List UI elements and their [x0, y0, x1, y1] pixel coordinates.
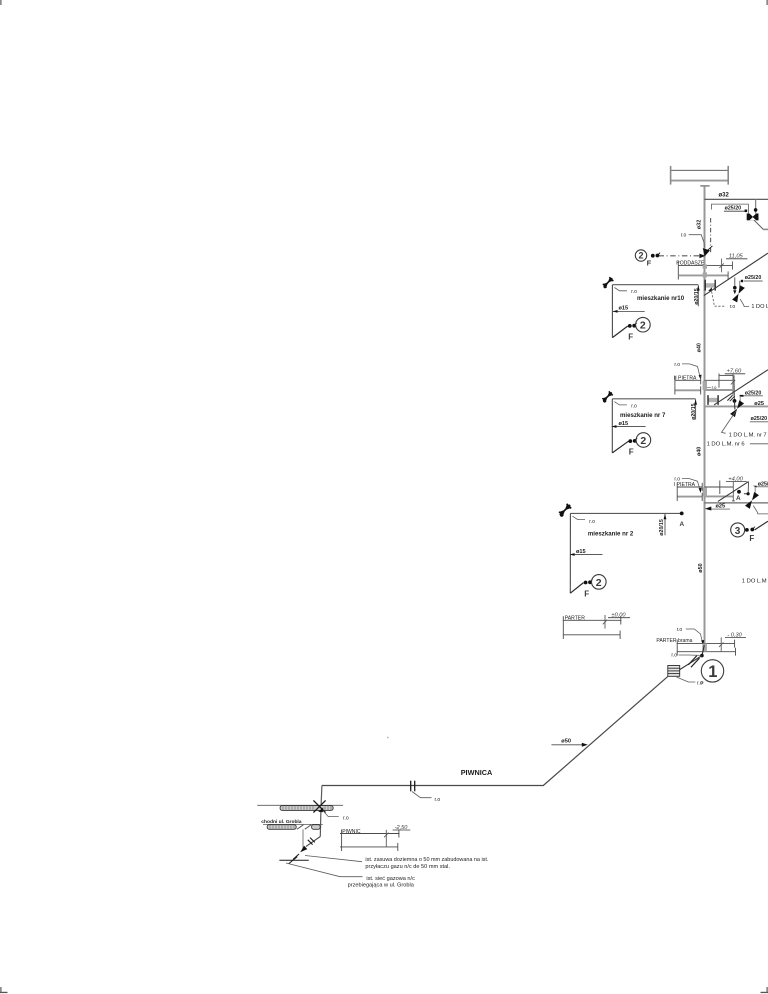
sidewalk strip upper	[280, 806, 333, 811]
dash-dot branch to F	[659, 255, 705, 257]
level value -0,30	[719, 632, 746, 651]
crop mark top-right	[766, 0, 768, 5]
svg-text:ø32: ø32	[719, 193, 730, 199]
crop mark bottom-left	[0, 987, 2, 993]
gas meter poddasze	[705, 280, 715, 291]
svg-text:ist. zasuwa doziemna o 50 mm: ist. zasuwa doziemna o 50 mm zabudowana …	[365, 857, 489, 863]
riser floor sleeves	[703, 264, 707, 268]
svg-text:r.o: r.o	[677, 627, 683, 633]
pipe diagonal from F3	[755, 521, 768, 530]
sidewalk strip lower right	[312, 825, 321, 830]
node dot	[754, 208, 758, 212]
svg-text:przebiegająca w ul. Grobla: przebiegająca w ul. Grobla	[348, 882, 415, 888]
level PIWNIC lines	[340, 830, 399, 852]
pipe nr7 vertical	[611, 399, 613, 453]
svg-text:F: F	[628, 333, 633, 342]
circle 2 nr2	[592, 575, 607, 590]
riser floor sleeve	[703, 487, 707, 496]
pipe nr2 vertical	[569, 513, 571, 593]
pipe nr2 horizontal	[570, 512, 681, 514]
leader r.o II pietra	[682, 364, 700, 377]
label o25/20 lower	[750, 416, 768, 422]
drop connection arrow nr2	[664, 514, 666, 535]
svg-text:F: F	[629, 448, 634, 457]
pipe nr7 horizontal	[612, 398, 695, 400]
valve X underground	[313, 800, 325, 812]
level value +-0,00	[603, 613, 630, 629]
svg-text:ø15: ø15	[619, 306, 629, 312]
pipe nr10 horizontal	[612, 284, 698, 286]
svg-text:PIWNICA: PIWNICA	[461, 768, 493, 777]
node dot A	[737, 490, 741, 494]
stove tap nr2	[557, 503, 572, 518]
circle 2 nr10	[636, 317, 651, 332]
speck	[387, 737, 389, 739]
crop mark bottom-right	[766, 987, 768, 993]
dim line o15 nr7	[612, 426, 646, 428]
svg-text:ø15: ø15	[576, 549, 586, 555]
svg-text:2: 2	[640, 320, 646, 332]
leader r.o I pietra	[682, 479, 700, 490]
svg-text:1: 1	[708, 663, 717, 681]
svg-text:ø25: ø25	[754, 401, 764, 407]
node dot 2 with stub	[747, 492, 750, 495]
svg-text:ø25/20: ø25/20	[745, 275, 762, 281]
circle 1	[701, 660, 723, 682]
leader r.o nr7	[614, 402, 627, 405]
small ring speck below circle 1	[701, 681, 703, 683]
leader r.o nr2	[573, 516, 586, 519]
svg-text:2: 2	[639, 251, 644, 261]
svg-text:A: A	[680, 521, 685, 528]
riser floor sleeve	[703, 381, 707, 390]
leader nr 6	[750, 443, 768, 445]
level value 11,05	[719, 254, 747, 273]
pipe crossing in gap	[297, 825, 303, 830]
leader to 1 DO L.M. nr 7	[722, 411, 737, 434]
leader to 1 DO	[740, 299, 749, 306]
svg-text:r.o: r.o	[730, 304, 736, 310]
svg-text:3: 3	[735, 526, 741, 537]
svg-text:2: 2	[596, 577, 602, 589]
existing gas main symbol	[279, 859, 308, 861]
arrow below dot	[733, 290, 736, 294]
leader r.o brama	[686, 629, 703, 642]
pipe basement horizontal	[322, 785, 544, 787]
riser main pipe	[704, 186, 706, 645]
svg-text:F: F	[647, 258, 652, 267]
label o25 with arrow	[705, 504, 730, 511]
riser sleeve brama	[702, 644, 707, 652]
union on basement pipe	[411, 781, 415, 792]
existing riser below strip	[302, 829, 304, 848]
flue dash-dot line	[710, 218, 712, 253]
pipe nr2 diagonal	[570, 583, 583, 594]
svg-text:ist. sieć gazowa n/c: ist. sieć gazowa n/c	[366, 876, 415, 882]
label o25/20 upper	[740, 390, 763, 406]
circle 2 nr7	[636, 433, 651, 448]
svg-text:r.o: r.o	[631, 403, 637, 409]
arrow on meter	[708, 287, 712, 291]
level PARTER brama lines	[677, 640, 736, 656]
pipe jog diagonal with union	[306, 837, 320, 847]
stove tap nr10	[601, 276, 614, 289]
drop from diagonal to valve	[734, 277, 736, 287]
svg-text:ø40: ø40	[697, 447, 703, 456]
node dot II pietra	[733, 399, 737, 403]
svg-text:ø50: ø50	[561, 739, 571, 745]
svg-text:r.o: r.o	[435, 797, 441, 803]
pipe horizontal I pietra	[705, 502, 768, 504]
pipe to right edge	[763, 228, 768, 230]
svg-text:przyłaczu gazu n/c de 50 mm st: przyłaczu gazu n/c de 50 mm stal.	[365, 864, 450, 870]
svg-text:F: F	[584, 589, 589, 598]
arrow at riser end	[699, 254, 705, 259]
diagonal pipe I pietra	[718, 482, 749, 502]
svg-text:PIWNIC: PIWNIC	[342, 829, 361, 835]
level I PIETRA lines (left)	[677, 483, 702, 501]
level I PIETRA lines (right of riser)	[705, 481, 734, 497]
slash valve on diagonal	[691, 658, 700, 667]
svg-text:1 DO L.M. nr 6: 1 DO L.M. nr 6	[707, 442, 745, 448]
vertical from diagonal	[747, 482, 749, 494]
level value +7,60	[725, 368, 745, 395]
pipe o25 horizontal gray	[705, 405, 768, 407]
valve I pietra (rotated bowtie)	[745, 492, 759, 509]
pipe nr7 diagonal	[612, 441, 628, 453]
pipe diagonal after valve	[754, 220, 763, 229]
svg-text:ø40: ø40	[697, 343, 703, 352]
wall sleeve box	[668, 666, 680, 677]
gas cock dots nr2	[584, 581, 588, 585]
arrow on riser	[703, 246, 712, 256]
drop line flag to dot	[733, 375, 735, 401]
svg-text:r.o: r.o	[674, 362, 680, 368]
svg-text:1 DO L: 1 DO L	[751, 304, 768, 310]
pipe o32 horizontal	[705, 198, 768, 200]
leader to zasuwa text	[305, 856, 362, 862]
level value -2,50	[384, 825, 410, 847]
level value +4,00	[726, 477, 747, 501]
level PARTER lines	[563, 616, 621, 639]
level PODDASZE lines	[678, 261, 733, 279]
svg-text:mieszkanie nr 2: mieszkanie nr 2	[588, 530, 634, 537]
svg-text:1 DO L.M. nr 7: 1 DO L.M. nr 7	[729, 432, 767, 438]
svg-text:ø20/15: ø20/15	[691, 403, 697, 420]
dashed leader r.o meter	[712, 292, 726, 307]
svg-text:mieszkanie nr 7: mieszkanie nr 7	[620, 412, 666, 419]
diagonal pipe poddasze	[704, 253, 768, 296]
label o25/20 right edge	[753, 481, 768, 494]
svg-text:ø32: ø32	[697, 220, 703, 229]
svg-text:ø20/15: ø20/15	[694, 288, 700, 305]
level II PIETRA lines (right of riser)	[705, 373, 734, 390]
wire drop to valve	[755, 199, 757, 213]
node dot A left	[680, 512, 684, 516]
svg-text:r.o: r.o	[589, 519, 595, 525]
svg-text:ø15: ø15	[619, 421, 629, 427]
gas cock dots nr7	[628, 439, 632, 443]
connection arrowhead	[300, 846, 307, 852]
leader r.o nr10	[615, 288, 628, 291]
pipe nr10 diagonal	[612, 326, 627, 338]
ground line upper	[257, 804, 343, 806]
svg-text:r.o: r.o	[681, 232, 687, 238]
valve poddasze (rotated bowtie)	[732, 285, 745, 302]
svg-text:2: 2	[640, 435, 646, 447]
pipe diagonal to basement	[543, 676, 668, 785]
svg-text:r.o: r.o	[671, 653, 677, 659]
label o25/20 (poddasze)	[740, 275, 763, 288]
ground line lower	[263, 823, 323, 825]
gas point F circle 2 (top)	[635, 250, 660, 267]
svg-text:F: F	[749, 534, 754, 543]
gas meter II pietra	[708, 395, 718, 405]
node dot	[733, 286, 737, 290]
pipe down from basement	[320, 786, 322, 837]
riser connection arrow nr7	[695, 399, 697, 419]
crop mark top-left	[0, 0, 2, 5]
svg-text:A: A	[736, 495, 741, 502]
union ticks on drop	[727, 395, 732, 400]
leader to siec text	[286, 863, 363, 877]
gas cock dots nr10	[628, 324, 632, 328]
node dot brama	[700, 654, 704, 658]
riser top cap	[700, 185, 709, 187]
pipe riser bottom to dot	[702, 645, 704, 655]
svg-text:r.o: r.o	[712, 385, 717, 390]
sidewalk strip lower left	[267, 825, 296, 830]
diagonal pipe II pietra	[714, 370, 768, 405]
svg-text:ø20/15: ø20/15	[659, 519, 665, 536]
drop from dot to valve	[734, 401, 736, 410]
dim line o15 nr2	[570, 554, 603, 556]
stove tap nr7	[601, 390, 614, 403]
svg-text:1 DO L.M: 1 DO L.M	[742, 579, 767, 585]
gas point F circle 3	[731, 523, 755, 543]
svg-text:ø50: ø50	[698, 563, 704, 572]
level II PIETRA lines (left)	[675, 376, 701, 395]
svg-text:mieszkanie nr10: mieszkanie nr10	[637, 295, 685, 302]
riser connection arrow nr10	[697, 285, 699, 306]
svg-text:ø25/20: ø25/20	[725, 205, 742, 211]
pipe diagonal dot to wall	[680, 656, 702, 670]
valve II pietra (rotated bowtie)	[730, 400, 744, 417]
leader from valve right	[753, 506, 768, 514]
leader r.o to riser	[689, 235, 705, 248]
dim line o15 nr10	[613, 310, 645, 312]
roof datum symbol	[670, 166, 728, 185]
pipe nr10 vertical	[611, 285, 613, 338]
svg-text:PARTER brama: PARTER brama	[656, 638, 692, 644]
label o25/20 top with bracket	[711, 204, 748, 213]
svg-text:r.o: r.o	[343, 815, 349, 821]
valve top-right (bowtie)	[747, 214, 759, 221]
